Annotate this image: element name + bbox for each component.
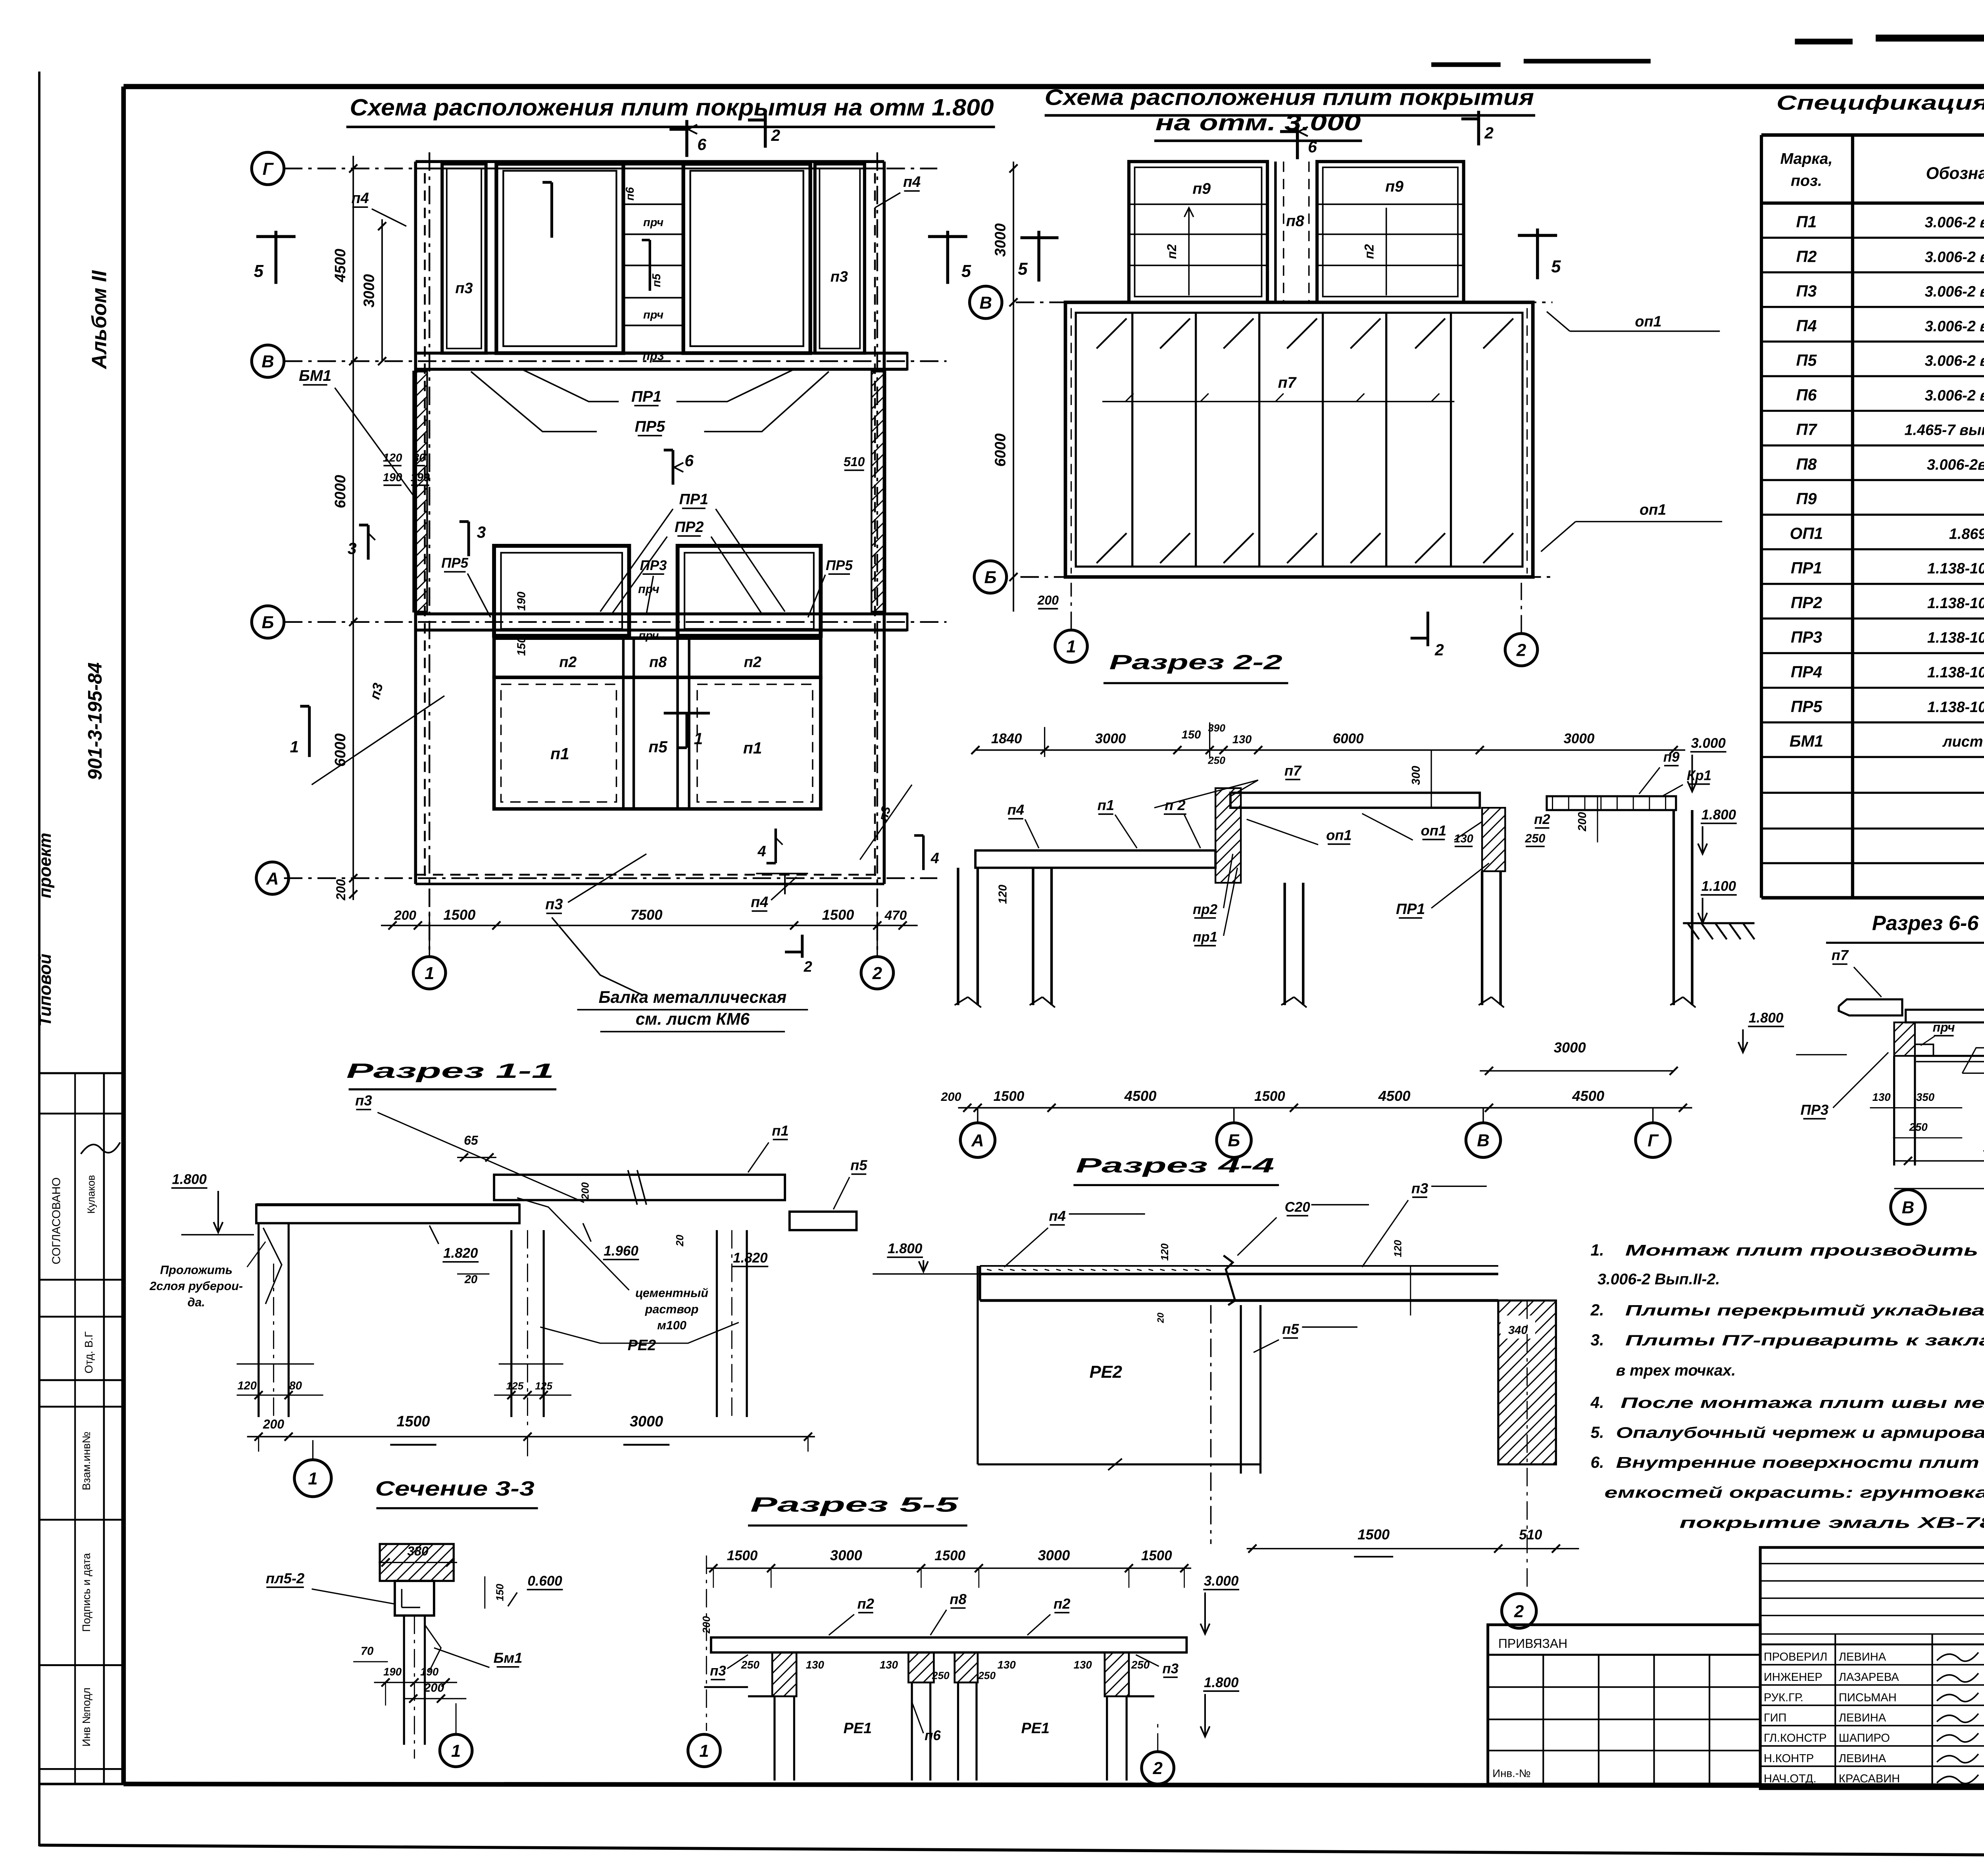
plan1 grid line 1 (429, 152, 430, 956)
svg-text:С20: С20 (1285, 1199, 1311, 1215)
svg-text:5: 5 (254, 262, 264, 281)
plan2 section mark 5 left (1038, 231, 1040, 282)
svg-text:оп1: оп1 (1326, 827, 1352, 843)
svg-text:П2: П2 (1796, 247, 1817, 265)
svg-text:Кр1: Кр1 (1687, 768, 1711, 783)
svg-text:В: В (980, 294, 992, 313)
svg-text:прч: прч (1933, 1020, 1955, 1035)
svg-text:Разрез 4-4: Разрез 4-4 (1076, 1154, 1274, 1177)
svg-text:п3: п3 (1411, 1180, 1428, 1196)
svg-text:В: В (261, 352, 274, 371)
svg-text:пл5-2: пл5-2 (266, 1570, 304, 1586)
svg-text:300: 300 (1410, 766, 1423, 785)
svg-text:2: 2 (1153, 1759, 1163, 1778)
svg-text:510: 510 (1519, 1527, 1542, 1542)
section6-6 lower slab line (1916, 1056, 1984, 1056)
svg-text:1.138-10 вып.2: 1.138-10 вып.2 (1927, 595, 1984, 612)
plan1 grid circle Б (252, 606, 284, 638)
svg-text:п 2: п 2 (1165, 797, 1186, 813)
svg-text:оп1: оп1 (1635, 313, 1661, 330)
svg-text:п5: п5 (648, 738, 668, 756)
svg-text:1.100: 1.100 (1701, 879, 1736, 894)
long section left slab 1.800 (975, 851, 1215, 868)
svg-text:п6: п6 (624, 187, 636, 201)
svg-text:2: 2 (1484, 124, 1494, 142)
svg-text:Б: Б (984, 568, 996, 587)
svg-text:п1: п1 (743, 739, 762, 757)
svg-text:1: 1 (694, 730, 703, 748)
svg-text:Г: Г (263, 159, 274, 179)
svg-text:Обозначение: Обозначение (1926, 164, 1984, 182)
svg-text:покрытие эмаль ХВ-785, 2 сл: покрытие эмаль ХВ-785, 2 слоя, δ= 50÷40 … (1680, 1514, 1984, 1531)
plan2 grid line В (1016, 302, 1553, 303)
section3-3 beam box (395, 1581, 434, 1615)
svg-text:ПР3: ПР3 (640, 558, 667, 573)
svg-text:БМ1: БМ1 (1790, 732, 1823, 750)
section5-5 grid circle 2 (1142, 1752, 1174, 1784)
section3-3 grid circle 1 (440, 1734, 472, 1767)
svg-text:п1: п1 (550, 745, 569, 763)
plan2 bay diagonal marks top (1097, 319, 1127, 349)
svg-text:120: 120 (237, 1379, 257, 1392)
svg-text:прч: прч (638, 582, 659, 596)
svg-text:РЕ2: РЕ2 (1090, 1363, 1122, 1382)
svg-text:125: 125 (535, 1380, 552, 1392)
svg-text:150: 150 (1182, 729, 1201, 741)
plan1 grid circle Г (252, 152, 284, 184)
svg-text:п2: п2 (1165, 244, 1179, 259)
section1-1 bottom dims 125 125 (499, 1363, 563, 1364)
svg-text:раствор: раствор (645, 1302, 699, 1316)
svg-text:прч: прч (638, 630, 659, 642)
svg-text:2: 2 (872, 964, 882, 983)
svg-text:см. лист КМ6: см. лист КМ6 (636, 1010, 750, 1028)
svg-text:3000: 3000 (1564, 731, 1595, 746)
section1-1 grid circle 1 (294, 1460, 331, 1497)
plan2 grid circle В (970, 286, 1002, 318)
svg-text:1: 1 (308, 1469, 317, 1488)
svg-text:п7: п7 (1278, 374, 1297, 391)
svg-text:250: 250 (741, 1659, 760, 1671)
svg-text:3: 3 (348, 539, 357, 557)
svg-text:1.138-10 вып.3: 1.138-10 вып.3 (1927, 630, 1984, 646)
svg-text:Балка металлическая: Балка металлическая (599, 988, 787, 1006)
svg-text:3.006-2 вып.II-2: 3.006-2 вып.II-2 (1925, 318, 1984, 335)
svg-text:прч: прч (643, 309, 663, 321)
svg-text:Плиты П7-приварить к заклад: Плиты П7-приварить к закладным деталям о… (1625, 1333, 1984, 1349)
svg-text:1.800: 1.800 (1749, 1010, 1784, 1025)
plan1 grid circle 1 (413, 956, 445, 989)
specification table grid (1761, 134, 1984, 136)
svg-text:п2: п2 (744, 654, 761, 670)
plan2 tank outer wall (1065, 302, 1533, 577)
svg-text:190: 190 (411, 471, 430, 484)
svg-text:4500: 4500 (1124, 1088, 1157, 1104)
section6-6 П7 flag piece (1839, 999, 1902, 1016)
svg-text:ПР3: ПР3 (1801, 1102, 1829, 1118)
svg-text:КРАСАВИН: КРАСАВИН (1839, 1772, 1900, 1785)
svg-text:Плиты перекрытий укладывать: Плиты перекрытий укладывать на свежеулож… (1625, 1302, 1984, 1319)
svg-text:поз.: поз. (1791, 172, 1822, 189)
long section grid circles (977, 1108, 978, 1123)
svg-text:п2: п2 (1534, 812, 1550, 827)
svg-text:3.006-2 Вып.II-2.: 3.006-2 Вып.II-2. (1598, 1271, 1720, 1288)
svg-text:оп1: оп1 (1640, 501, 1666, 518)
plan1 section mark 5 right (947, 231, 948, 284)
svg-text:130: 130 (806, 1659, 825, 1671)
svg-text:ИНЖЕНЕР: ИНЖЕНЕР (1764, 1671, 1823, 1684)
section3-3 column below (404, 1615, 404, 1745)
plan2 top strip П9 right (1317, 161, 1463, 302)
svg-text:ПР1: ПР1 (1791, 559, 1822, 577)
svg-text:п8: п8 (649, 654, 667, 670)
svg-text:1500: 1500 (443, 906, 475, 923)
plan1 plate П3 top-right (815, 164, 865, 353)
svg-text:120: 120 (997, 885, 1009, 904)
svg-text:70: 70 (361, 1645, 373, 1657)
svg-text:П7: П7 (1796, 421, 1818, 439)
svg-text:ПР5: ПР5 (826, 558, 853, 573)
svg-text:прч: прч (643, 216, 663, 229)
plan1 section mark 1 inside П5 (686, 713, 687, 748)
svg-text:200: 200 (423, 1681, 444, 1694)
svg-text:2: 2 (1516, 641, 1526, 660)
svg-text:П6: П6 (1796, 386, 1817, 404)
svg-text:Н.КОНТР: Н.КОНТР (1764, 1752, 1814, 1765)
svg-text:4500: 4500 (1378, 1088, 1411, 1104)
svg-text:После монтажа плит швы ме: После монтажа плит швы между ними залить… (1621, 1395, 1984, 1411)
svg-text:Разрез 1-1: Разрез 1-1 (346, 1060, 554, 1083)
svg-text:250: 250 (932, 1669, 950, 1681)
svg-text:3: 3 (477, 523, 486, 541)
svg-text:3000: 3000 (361, 274, 378, 307)
svg-text:ПР5: ПР5 (635, 418, 665, 435)
svg-text:20: 20 (674, 1235, 686, 1247)
long section top dimension chain (975, 750, 1685, 751)
svg-text:130: 130 (1074, 1659, 1092, 1671)
plan1 plates П1 П5 П1 row (494, 678, 821, 809)
svg-text:0.600: 0.600 (527, 1573, 562, 1589)
svg-text:4500: 4500 (1572, 1088, 1604, 1104)
plan1 section mark 2 top (765, 111, 766, 148)
svg-text:п1: п1 (772, 1122, 788, 1139)
svg-text:3000: 3000 (830, 1547, 862, 1563)
svg-text:1: 1 (425, 964, 434, 983)
svg-text:п4: п4 (352, 190, 369, 207)
svg-text:4: 4 (757, 843, 766, 860)
svg-text:ПР4: ПР4 (1791, 663, 1822, 681)
svg-text:80: 80 (413, 452, 425, 465)
svg-text:1.138-10 вып.3: 1.138-10 вып.3 (1927, 561, 1984, 577)
plan1 plate П3 top-left (442, 164, 486, 353)
plan2 tank bay dividers (1132, 313, 1133, 566)
svg-text:ГИП: ГИП (1764, 1711, 1787, 1724)
plan1 section mark 5 left (275, 231, 277, 284)
plan2 dimension chain (1013, 161, 1014, 611)
svg-text:1500: 1500 (727, 1548, 758, 1563)
svg-text:200: 200 (1576, 812, 1589, 832)
section4-4 right wall hatched (1498, 1300, 1556, 1464)
svg-text:200: 200 (394, 908, 416, 923)
section6-6 hatched pier left (1894, 1022, 1915, 1056)
title block personnel table (1760, 1548, 1984, 1789)
svg-text:390: 390 (1208, 722, 1225, 734)
svg-text:2: 2 (1514, 1602, 1524, 1621)
svg-text:п8: п8 (950, 1591, 967, 1607)
svg-text:В: В (1477, 1131, 1490, 1150)
svg-text:901-3-195-84: 901-3-195-84 (84, 662, 106, 780)
svg-text:п2: п2 (1054, 1596, 1070, 1612)
svg-text:п7: п7 (1284, 762, 1302, 779)
svg-text:6.: 6. (1591, 1453, 1604, 1471)
svg-text:РЕ1: РЕ1 (1021, 1720, 1050, 1737)
plan1 sub dimension 3000 (382, 219, 383, 361)
svg-text:130: 130 (1232, 733, 1252, 746)
plan1 section mark 3 right (468, 522, 469, 556)
plan2 grid circle 1 (1055, 630, 1087, 662)
plan1 left dimension chain (353, 156, 354, 900)
svg-text:п5: п5 (650, 273, 663, 287)
svg-text:250: 250 (1909, 1121, 1928, 1133)
section1-1 dim chain 200 1500 3000 (247, 1436, 815, 1437)
plan1 grid circle А (256, 862, 288, 894)
svg-text:1.800: 1.800 (1204, 1675, 1239, 1690)
svg-text:6000: 6000 (1333, 731, 1364, 746)
svg-text:Разрез 2-2: Разрез 2-2 (1109, 651, 1282, 674)
section5-5 slab (711, 1638, 1186, 1653)
svg-text:п3: п3 (831, 269, 848, 285)
svg-text:П9: П9 (1796, 490, 1817, 508)
section5-5 top dim chain (706, 1568, 1191, 1569)
svg-text:цементный: цементный (635, 1287, 708, 1300)
svg-text:ПР1: ПР1 (1396, 901, 1425, 918)
svg-text:1.800: 1.800 (888, 1241, 923, 1256)
svg-text:СОГЛАСОВАНО: СОГЛАСОВАНО (50, 1177, 63, 1264)
section1-1 right slab (790, 1212, 857, 1230)
svg-text:1: 1 (1066, 637, 1076, 657)
plan1 bottom dimension chain (381, 925, 918, 926)
svg-text:1.138-10 вып.2: 1.138-10 вып.2 (1927, 699, 1984, 716)
long section ground hatch symbol (1688, 923, 1699, 939)
svg-text:ПРИВЯЗАН: ПРИВЯЗАН (1498, 1636, 1567, 1651)
svg-text:П3: П3 (1796, 282, 1817, 300)
plan2 grid circle Б (974, 561, 1006, 593)
svg-text:3.006-2вып.II-2: 3.006-2вып.II-2 (1927, 457, 1984, 473)
plan1 section mark 6 middle (673, 450, 673, 484)
svg-text:190: 190 (383, 1666, 402, 1678)
svg-text:1.138-10 вып.2: 1.138-10 вып.2 (1927, 664, 1984, 681)
svg-text:А: А (971, 1131, 984, 1150)
svg-text:В: В (1902, 1198, 1915, 1217)
plan1 plates П2 П8 П2 row (494, 638, 821, 678)
left margin approval table (39, 1073, 123, 1073)
svg-text:2: 2 (771, 126, 781, 144)
long section central slab 3.000 (1230, 793, 1480, 808)
svg-text:250: 250 (1525, 831, 1545, 845)
svg-text:1: 1 (451, 1742, 461, 1761)
plan2 grid line Б (1021, 576, 1553, 577)
svg-text:п9: п9 (1663, 749, 1680, 765)
section4-4 С20 zigzag (1224, 1256, 1235, 1305)
svg-text:1500: 1500 (934, 1548, 965, 1563)
svg-text:Схема расположения плит покры: Схема расположения плит покрытия на отм … (350, 94, 994, 121)
svg-text:200: 200 (263, 1417, 285, 1431)
svg-text:п2: п2 (559, 654, 577, 670)
svg-text:20: 20 (464, 1273, 477, 1286)
svg-text:РЕ2: РЕ2 (628, 1337, 656, 1354)
svg-text:6000: 6000 (992, 433, 1009, 467)
svg-text:Проложить: Проложить (160, 1263, 233, 1277)
svg-text:3.006-2 вып.II-2: 3.006-2 вып.II-2 (1925, 214, 1984, 231)
svg-text:20: 20 (1155, 1313, 1165, 1323)
svg-text:ПИСЬМАН: ПИСЬМАН (1839, 1691, 1897, 1704)
svg-text:да.: да. (187, 1296, 205, 1309)
svg-text:1.: 1. (1591, 1241, 1604, 1259)
svg-text:2: 2 (1434, 641, 1444, 659)
svg-text:Внутренние поверхности плит: Внутренние поверхности плит покрытия, пе… (1616, 1454, 1984, 1471)
svg-text:6: 6 (697, 135, 706, 154)
svg-text:1.869.1-1: 1.869.1-1 (1949, 526, 1984, 542)
section6-6 slab П8 (1906, 1010, 1984, 1022)
plan1 grid line 2 (877, 152, 878, 956)
section1-1 left slab (256, 1205, 519, 1223)
section6-6 grid circle В (1891, 1190, 1925, 1224)
sheet border frame (123, 86, 1984, 88)
section4-4 left wall (977, 1266, 978, 1464)
svg-text:ПР2: ПР2 (1791, 593, 1822, 612)
svg-text:200: 200 (941, 1090, 961, 1104)
svg-text:Б: Б (1228, 1131, 1240, 1150)
plan1 wall on axis В (415, 353, 907, 354)
svg-text:1.800: 1.800 (1701, 807, 1736, 822)
plan1 middle strip with ПРЧ П5 (623, 164, 683, 353)
svg-text:190: 190 (515, 591, 528, 611)
svg-text:80: 80 (289, 1379, 302, 1392)
svg-text:ПР2: ПР2 (675, 519, 704, 536)
svg-text:6000: 6000 (332, 475, 349, 508)
svg-text:п7: п7 (1832, 947, 1849, 963)
svg-text:п3: п3 (455, 280, 473, 297)
svg-text:Отд. В.Г: Отд. В.Г (83, 1331, 95, 1373)
svg-text:3000: 3000 (1038, 1547, 1070, 1563)
section1-1 middle column (511, 1230, 512, 1417)
svg-text:Типовой: Типовой (36, 954, 55, 1027)
svg-text:м100: м100 (657, 1319, 686, 1332)
svg-text:190: 190 (420, 1666, 439, 1678)
svg-text:БМ1: БМ1 (299, 367, 331, 384)
svg-text:1.820: 1.820 (733, 1250, 768, 1265)
svg-text:Альбом II: Альбом II (88, 270, 111, 370)
svg-text:РЕ1: РЕ1 (844, 1720, 872, 1737)
section1-1 left column (258, 1223, 259, 1417)
svg-text:250: 250 (978, 1669, 996, 1681)
svg-text:4500: 4500 (332, 249, 349, 282)
plan1 grid line Б (284, 622, 947, 622)
svg-text:1.820: 1.820 (443, 1246, 478, 1261)
plan1 grid circle В (252, 345, 284, 377)
svg-text:190: 190 (383, 471, 402, 484)
svg-text:5: 5 (961, 262, 971, 281)
long section right slab П9 Кр1 (1547, 796, 1676, 810)
svg-text:п2: п2 (857, 1596, 874, 1612)
section4-4 grid circle 2 (1502, 1594, 1536, 1628)
svg-text:200: 200 (579, 1182, 591, 1200)
svg-text:П8: П8 (1796, 455, 1817, 473)
plan1 grid line А (284, 878, 937, 879)
svg-text:2: 2 (804, 958, 812, 975)
svg-text:РУК.ГР.: РУК.ГР. (1764, 1691, 1803, 1704)
svg-text:п4: п4 (1049, 1208, 1065, 1224)
svg-text:в трех точках.: в трех точках. (1616, 1361, 1736, 1379)
svg-text:3.: 3. (1591, 1331, 1604, 1349)
svg-text:120: 120 (1392, 1240, 1403, 1257)
svg-text:4.: 4. (1590, 1393, 1604, 1411)
svg-text:350: 350 (1916, 1091, 1935, 1103)
svg-text:1500: 1500 (396, 1413, 430, 1430)
svg-text:3.000: 3.000 (1204, 1573, 1239, 1589)
svg-text:1500: 1500 (822, 906, 854, 923)
svg-text:125: 125 (506, 1380, 524, 1392)
svg-text:п4: п4 (903, 174, 921, 190)
svg-text:П5: П5 (1796, 351, 1817, 369)
plan1 section mark 3 left (368, 525, 369, 560)
svg-text:5.: 5. (1591, 1423, 1604, 1441)
scan artifact dashes above top border (1795, 40, 1852, 42)
svg-text:4: 4 (930, 850, 939, 867)
svg-text:150: 150 (494, 1584, 506, 1601)
svg-text:130: 130 (880, 1659, 898, 1671)
plan1 grid line Г (284, 168, 937, 169)
svg-text:п5: п5 (850, 1157, 867, 1173)
svg-text:пр1: пр1 (1193, 929, 1217, 945)
svg-text:Монтаж плит производить в: Монтаж плит производить в соответсствии … (1625, 1242, 1984, 1259)
section6-6 bottom dim chain (1894, 1160, 1984, 1161)
svg-text:п5: п5 (1282, 1321, 1299, 1337)
svg-text:лист КЖ6: лист КЖ6 (1942, 734, 1984, 750)
svg-text:1500: 1500 (1141, 1548, 1172, 1563)
plan1 bottom wall axis А (415, 874, 884, 875)
long section hatched pier right (1482, 808, 1505, 871)
svg-text:ГЛ.КОНСТР: ГЛ.КОНСТР (1764, 1732, 1827, 1745)
svg-text:5: 5 (1018, 259, 1028, 278)
svg-text:Схема расположения плит покрыт: Схема расположения плит покрытия (1045, 85, 1534, 110)
svg-text:ПР5: ПР5 (441, 555, 468, 571)
svg-text:120: 120 (1159, 1243, 1171, 1261)
plan1 section mark 4 right (923, 835, 924, 870)
svg-text:Подпись и дата: Подпись и дата (80, 1553, 92, 1632)
svg-text:65: 65 (464, 1133, 479, 1148)
section5-5 hatched piers (772, 1652, 796, 1696)
svg-text:емкостей окрасить: грунтовк: емкостей окрасить: грунтовка лак ХВ-784 … (1604, 1484, 1984, 1502)
svg-text:Б: Б (262, 613, 274, 632)
svg-text:п4: п4 (751, 894, 768, 910)
svg-text:ПР1: ПР1 (631, 388, 661, 405)
svg-text:Инв.-№: Инв.-№ (1492, 1767, 1530, 1780)
plan1 hatched wall left БМ1 zone (413, 372, 427, 612)
svg-text:340: 340 (1508, 1324, 1528, 1337)
svg-text:ШАПИРО: ШАПИРО (1839, 1732, 1890, 1745)
svg-text:Г: Г (1648, 1131, 1659, 1150)
plan2 top strip П8 middle (1275, 161, 1276, 302)
svg-text:п3: п3 (1162, 1661, 1178, 1676)
plan1 opening top 2 (683, 164, 810, 353)
svg-text:3.006-2 вып.II-2: 3.006-2 вып.II-2 (1925, 249, 1984, 265)
svg-text:6: 6 (684, 451, 694, 470)
svg-text:ПР1: ПР1 (679, 491, 708, 508)
svg-text:3000: 3000 (1554, 1039, 1586, 1056)
svg-text:А: А (266, 869, 279, 888)
svg-text:130: 130 (998, 1659, 1016, 1671)
